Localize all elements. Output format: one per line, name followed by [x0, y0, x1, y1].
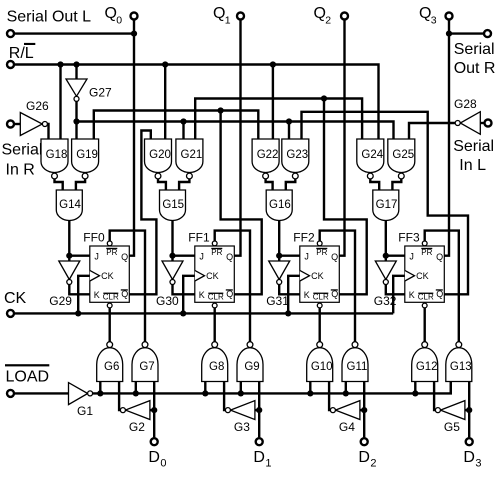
inverter G2 — [120, 401, 149, 420]
wire LOAD to G12 input — [414, 382, 416, 394]
wire G14 output to J of FF0 — [69, 221, 90, 256]
nand G7 — [132, 342, 158, 382]
nand G25 — [388, 139, 415, 179]
wire LOAD to G11 input — [345, 382, 347, 394]
svg-text:D: D — [463, 449, 475, 466]
svg-text:G20: G20 — [149, 149, 171, 161]
inverter G28 — [455, 112, 480, 135]
label G2 — [129, 420, 145, 434]
svg-text:D: D — [358, 449, 370, 466]
label Serial In L — [453, 138, 494, 174]
svg-text:PR: PR — [421, 248, 432, 257]
svg-text:CK: CK — [206, 271, 219, 281]
wire D2 line — [363, 382, 365, 438]
svg-text:G16: G16 — [269, 199, 291, 211]
wire CLR routing FF1 — [213, 308, 215, 342]
flip-flop FF2 — [300, 241, 340, 308]
wire CLR routing FF0 — [108, 308, 110, 342]
wire G3 output to G8 input — [224, 382, 225, 411]
wire J node to G29 input — [68, 256, 70, 261]
svg-text:G31: G31 — [266, 294, 289, 308]
wire Qbar0 to G20 input — [129, 131, 156, 295]
wire LOAD to G6 input — [99, 382, 101, 394]
wire G15 output to J of FF1 — [173, 221, 195, 256]
terminal D0 — [151, 438, 158, 445]
and gate G17 — [373, 190, 399, 221]
svg-text:Q: Q — [213, 5, 225, 22]
svg-text:Serial: Serial — [454, 41, 495, 58]
label G32 — [374, 294, 397, 308]
junction D3 to G5 — [466, 407, 472, 413]
label Q0 — [105, 5, 123, 26]
junction LOAD at G9 — [238, 390, 244, 396]
junction R/L to G18 — [57, 61, 63, 67]
junction LOAD at G7 — [133, 390, 139, 396]
wire G25 output to G17 — [392, 179, 401, 190]
wire R/L to G18 input — [59, 65, 61, 140]
nand G19 — [72, 139, 99, 179]
wire CK pin FF1 — [183, 276, 195, 314]
label Q2 — [314, 5, 332, 26]
svg-text:1: 1 — [225, 15, 231, 27]
svg-text:K: K — [199, 290, 205, 300]
label Serial In R — [2, 142, 43, 179]
svg-text:J: J — [409, 252, 414, 262]
svg-text:2: 2 — [370, 458, 376, 470]
label Q3 — [419, 5, 437, 26]
label CK — [4, 290, 27, 307]
wire G29 output to K of FF0 — [69, 285, 90, 295]
terminal Q1 — [237, 13, 244, 20]
svg-text:G10: G10 — [311, 361, 333, 373]
wire Serial In L to G28 — [480, 122, 483, 124]
inverter G3 — [225, 401, 255, 420]
wire D0 line — [153, 382, 155, 438]
label G30 — [156, 294, 179, 308]
wire Q of FF3 to Q3 terminal — [444, 19, 449, 255]
svg-text:J: J — [94, 252, 99, 262]
svg-text:PR: PR — [211, 248, 222, 257]
wire J node to G32 input — [385, 256, 387, 261]
wire Qbar2 tap jog — [324, 99, 367, 295]
terminal Q0 — [131, 13, 138, 20]
svg-text:CK: CK — [101, 271, 114, 281]
wire D1 line — [258, 382, 260, 438]
inverter G1 — [69, 383, 93, 405]
svg-text:PR: PR — [316, 248, 327, 257]
svg-text:G6: G6 — [104, 361, 119, 373]
svg-text:3: 3 — [431, 15, 437, 27]
nand G8 — [202, 342, 228, 382]
flip-flop FF1 — [195, 241, 235, 308]
svg-text:CK: CK — [4, 290, 27, 307]
svg-text:R/L: R/L — [9, 45, 34, 62]
nand G10 — [307, 342, 333, 382]
svg-text:K: K — [409, 290, 415, 300]
wire R/L to G27 input — [75, 65, 77, 80]
svg-text:3: 3 — [475, 458, 481, 470]
junction J node FF0 — [66, 253, 72, 259]
svg-text:G14: G14 — [59, 199, 81, 211]
label G1 — [77, 404, 93, 418]
svg-text:Serial: Serial — [2, 142, 43, 159]
junction LOAD at G6 — [97, 390, 103, 396]
svg-text:Serial: Serial — [453, 138, 494, 155]
wire G32 output to K of FF3 — [386, 285, 405, 295]
svg-text:In L: In L — [459, 157, 486, 174]
wire D3 to G5 input — [465, 409, 469, 411]
wire D1 to G3 input — [255, 409, 259, 411]
label LOAD — [5, 364, 49, 385]
wire D0 to G2 input — [150, 409, 154, 411]
terminal CK — [7, 310, 14, 317]
terminal Serial In R — [7, 121, 14, 128]
wire Q of FF2 to Q2 terminal — [339, 19, 344, 255]
wire LOAD-enable line — [93, 382, 451, 394]
svg-text:K: K — [304, 290, 310, 300]
label G26 — [26, 99, 49, 113]
svg-text:G27: G27 — [89, 86, 112, 100]
junction J node FF2 — [276, 253, 282, 259]
svg-text:G18: G18 — [46, 149, 68, 161]
svg-text:G1: G1 — [77, 404, 93, 418]
svg-text:K: K — [94, 290, 100, 300]
junction CK to FF0 — [75, 310, 81, 316]
junction LOAD at G12 — [412, 390, 418, 396]
svg-text:G5: G5 — [444, 420, 460, 434]
junction R/L to G22 — [270, 61, 276, 67]
svg-text:D: D — [253, 449, 265, 466]
terminal D3 — [466, 438, 473, 445]
wire Qbar1 tap jog — [221, 111, 262, 295]
wire G19 output to G14 — [76, 179, 85, 190]
label Serial Out L — [7, 9, 92, 26]
svg-text:Q: Q — [105, 5, 117, 22]
label G31 — [266, 294, 289, 308]
nand G23 — [282, 139, 309, 179]
junction LOAD at G11 — [343, 390, 349, 396]
nand G13 — [446, 342, 472, 382]
wire PR routing FF2 — [320, 231, 355, 342]
terminal Serial In L — [485, 120, 492, 127]
junction D0 to G2 — [151, 407, 157, 413]
label Q1 — [213, 5, 231, 26]
junction R/L to G27 — [73, 61, 79, 67]
wire G2 output to G6 input — [119, 382, 120, 411]
wire G16 output to J of FF2 — [279, 221, 300, 256]
junction D1 to G3 — [256, 407, 262, 413]
junction D2 to G4 — [361, 407, 367, 413]
wire LOAD to G7 input — [135, 382, 137, 394]
and gate G16 — [266, 190, 292, 221]
nand G12 — [412, 342, 438, 382]
terminal LOAD — [7, 390, 14, 397]
nand G11 — [342, 342, 368, 382]
nand G20 — [145, 139, 172, 179]
flip-flop FF3 — [405, 241, 445, 308]
svg-text:Q: Q — [436, 252, 443, 262]
svg-text:G9: G9 — [244, 361, 259, 373]
wire CK pin FF3 — [393, 276, 405, 314]
svg-text:Q: Q — [436, 289, 443, 299]
wire Q of FF0 to Q0 terminal — [129, 19, 134, 255]
svg-text:G23: G23 — [286, 149, 308, 161]
svg-text:G15: G15 — [162, 199, 184, 211]
svg-text:In R: In R — [6, 161, 35, 178]
svg-text:FF3: FF3 — [398, 231, 420, 245]
svg-text:Q: Q — [121, 289, 128, 299]
wire Qbar1 line to G19 input — [94, 111, 258, 140]
inverter G32 — [375, 261, 396, 285]
wire D2 to G4 input — [360, 409, 364, 411]
svg-text:G26: G26 — [26, 99, 49, 113]
label FF2 — [293, 231, 315, 245]
wire R/L to G22 input — [272, 65, 274, 140]
junction G27 output — [73, 118, 79, 124]
svg-text:Q: Q — [331, 289, 338, 299]
svg-text:0: 0 — [160, 458, 166, 470]
wire CK pin FF0 — [78, 276, 90, 314]
label D3 — [463, 449, 481, 470]
svg-text:FF2: FF2 — [293, 231, 315, 245]
nand G18 — [41, 139, 68, 179]
wire G30 output to K of FF1 — [173, 285, 195, 295]
svg-text:Q: Q — [314, 5, 326, 22]
wire Serial Out L to node Q0 — [15, 32, 134, 34]
svg-text:CLR: CLR — [208, 293, 224, 302]
wire LOAD to G13 input — [450, 382, 452, 394]
junction Qbar1 tap — [218, 107, 224, 113]
inverter G31 — [269, 261, 290, 285]
label FF3 — [398, 231, 420, 245]
label D1 — [253, 449, 271, 470]
svg-text:Q: Q — [419, 5, 431, 22]
wire CK pin FF2 — [288, 276, 300, 314]
junction Qbar2 tap — [321, 95, 327, 101]
and gate G15 — [160, 190, 186, 221]
wire R/L to G20 input — [164, 65, 166, 140]
svg-text:G17: G17 — [376, 199, 398, 211]
wire LOAD to G9 input — [240, 382, 242, 394]
terminal D2 — [361, 438, 368, 445]
terminal R/L — [7, 61, 14, 68]
wire Qbar3 line to G23 input — [302, 112, 469, 294]
svg-text:G12: G12 — [416, 361, 438, 373]
wire Q of FF1 to Q1 terminal — [234, 19, 240, 255]
label G27 — [89, 86, 112, 100]
svg-text:G8: G8 — [209, 361, 224, 373]
svg-text:CK: CK — [311, 271, 324, 281]
label Serial Out R — [454, 41, 496, 77]
svg-text:G30: G30 — [156, 294, 179, 308]
label FF0 — [83, 231, 105, 245]
junction CK to FF1 — [180, 310, 186, 316]
svg-text:CLR: CLR — [313, 293, 329, 302]
svg-text:G11: G11 — [347, 361, 368, 373]
wire G18 output to G14 — [55, 179, 63, 190]
junction CK to FF2 — [285, 310, 291, 316]
svg-text:FF0: FF0 — [83, 231, 105, 245]
nand G9 — [237, 342, 263, 382]
wire G24 output to G17 — [370, 179, 379, 190]
wire G5 output to G12 input — [434, 382, 435, 411]
wire node Q3 to Serial Out R — [449, 32, 483, 34]
svg-text:CLR: CLR — [418, 293, 434, 302]
label D0 — [148, 449, 166, 470]
wire G26 output to G18 input — [47, 124, 48, 139]
wire G17 output to J of FF3 — [386, 221, 405, 256]
label D2 — [358, 449, 376, 470]
wire G23 output to G16 — [286, 179, 296, 190]
junction L-enable to G21 — [180, 118, 186, 124]
svg-text:Out R: Out R — [454, 60, 496, 77]
svg-text:LOAD: LOAD — [6, 368, 50, 385]
wire D3 line — [468, 382, 470, 438]
terminal D1 — [256, 438, 263, 445]
terminal Q2 — [341, 13, 348, 20]
svg-text:Q: Q — [226, 289, 233, 299]
label FF1 — [188, 231, 210, 245]
label G28 — [454, 97, 477, 111]
nand G22 — [252, 139, 279, 179]
label G29 — [49, 294, 72, 308]
svg-text:CK: CK — [416, 271, 429, 281]
junction J node FF1 — [169, 253, 175, 259]
wire CLR routing FF3 — [424, 308, 426, 342]
wire G31 output to K of FF2 — [279, 285, 300, 295]
svg-text:J: J — [199, 252, 204, 262]
svg-text:2: 2 — [325, 15, 331, 27]
inverter G26 — [20, 113, 47, 136]
wire CLR routing FF2 — [319, 308, 321, 342]
inverter G5 — [435, 401, 465, 420]
inverter G30 — [162, 261, 183, 285]
junction on Q3 line — [446, 30, 452, 36]
wire L-enable to G23 input — [288, 122, 290, 140]
svg-text:Serial Out L: Serial Out L — [7, 9, 92, 26]
svg-text:CLR: CLR — [103, 293, 119, 302]
wire LOAD to G8 input — [204, 382, 206, 394]
svg-text:G25: G25 — [392, 149, 414, 161]
wire J node to G31 input — [278, 256, 280, 261]
inverter G29 — [59, 261, 80, 285]
terminal Serial Out R — [484, 30, 491, 37]
wire L-enable to G21 input — [182, 122, 184, 140]
wire J node to G30 input — [171, 256, 173, 261]
wire LOAD to G1 — [15, 392, 69, 394]
wire G22 output to G16 — [266, 179, 273, 190]
wire CK line — [15, 312, 393, 314]
svg-text:PR: PR — [106, 248, 117, 257]
svg-text:Q: Q — [121, 252, 128, 262]
svg-text:FF1: FF1 — [188, 231, 210, 245]
svg-text:G7: G7 — [139, 361, 154, 373]
svg-text:G22: G22 — [257, 149, 279, 161]
wire L-enable line — [77, 122, 394, 140]
inverter G27 — [66, 79, 87, 101]
wire G28 output to G25 input — [409, 123, 455, 139]
wire G4 output to G10 input — [329, 382, 330, 411]
svg-text:Q: Q — [226, 252, 233, 262]
svg-text:G28: G28 — [454, 97, 477, 111]
svg-text:G21: G21 — [181, 149, 203, 161]
wire G20 output to G15 — [158, 179, 166, 190]
junction LOAD at G10 — [307, 390, 313, 396]
svg-text:0: 0 — [116, 15, 122, 27]
and gate G14 — [56, 190, 82, 221]
terminal Serial Out L — [7, 30, 14, 37]
nand G24 — [357, 139, 384, 179]
label G3 — [234, 420, 250, 434]
svg-text:G4: G4 — [339, 420, 355, 434]
junction R/L to G20 — [162, 61, 168, 67]
wire LOAD to G10 input — [309, 382, 311, 394]
svg-text:1: 1 — [265, 458, 271, 470]
wire PR routing FF0 — [110, 231, 145, 342]
svg-text:J: J — [304, 252, 309, 262]
wire PR routing FF3 — [425, 231, 459, 342]
svg-text:G13: G13 — [450, 361, 472, 373]
wire Qbar2 line to G21 input — [195, 99, 362, 140]
svg-text:D: D — [148, 449, 160, 466]
junction on Q0 line — [131, 30, 137, 36]
wire R/L bus — [15, 65, 379, 140]
svg-text:Q: Q — [331, 252, 338, 262]
label G4 — [339, 420, 355, 434]
label R/L — [9, 43, 36, 62]
label G5 — [444, 420, 460, 434]
wire G21 output to G15 — [179, 179, 189, 190]
wire PR routing FF1 — [215, 231, 250, 342]
nand G21 — [176, 139, 203, 179]
terminal Q3 — [446, 13, 453, 20]
inverter G4 — [330, 401, 360, 420]
junction LOAD at G8 — [202, 390, 208, 396]
wire Serial In R to G26 — [15, 123, 20, 125]
svg-text:G2: G2 — [129, 420, 145, 434]
svg-text:G29: G29 — [49, 294, 72, 308]
nand G6 — [97, 342, 123, 382]
flip-flop FF0 — [90, 241, 130, 308]
junction L-enable to G23 — [286, 118, 292, 124]
svg-text:G19: G19 — [76, 149, 98, 161]
svg-text:G3: G3 — [234, 420, 250, 434]
junction J node FF3 — [383, 253, 389, 259]
wire G27 output / L-enable bus — [75, 101, 77, 139]
svg-text:G24: G24 — [361, 149, 383, 161]
